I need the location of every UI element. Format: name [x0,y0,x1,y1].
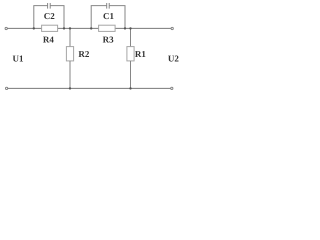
resistor R2 [69,28,71,46]
wire bottom rail [8,87,171,89]
capacitor C2 [34,6,48,29]
svg-text:C1: C1 [103,11,114,21]
node junction R2-top [69,27,71,29]
svg-text:R2: R2 [78,49,89,59]
svg-text:R4: R4 [43,35,54,45]
capacitor C1 [91,6,107,29]
node junction R1-top [129,27,131,29]
svg-text:C2: C2 [44,11,55,21]
node junction R1-bottom [129,87,131,89]
node junction C1-left [90,27,92,29]
wire top rail right segment [115,27,171,29]
wire top rail left segment [7,27,41,29]
svg-text:U1: U1 [13,53,24,63]
resistor R4 [42,25,58,31]
node junction C1-right [124,27,126,29]
resistor R1 [130,28,132,46]
node junction R2-bottom [69,87,71,89]
svg-text:R3: R3 [103,35,114,45]
terminal top-right [171,27,173,29]
terminal top-left [5,27,7,29]
node junction C2-left [33,27,35,29]
node junction C2-right [63,27,65,29]
wire top rail middle segment [58,27,99,29]
terminal bottom-left [6,87,8,89]
svg-text:U2: U2 [168,53,179,63]
svg-text:R1: R1 [135,49,146,59]
resistor R3 [99,25,116,31]
terminal bottom-right [171,87,173,89]
